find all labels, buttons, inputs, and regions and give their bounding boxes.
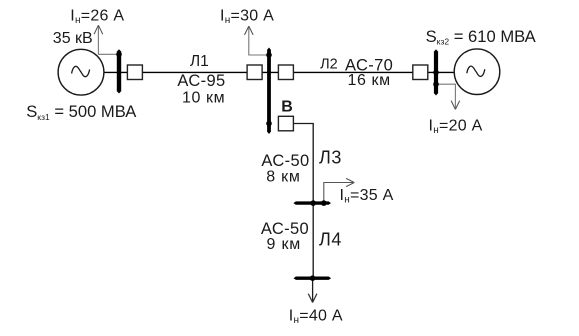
svg-text:35 кВ: 35 кВ [53,30,93,47]
svg-text:Sкз2 = 610 МВА: Sкз2 = 610 МВА [426,27,537,47]
svg-text:9 км: 9 км [267,236,302,253]
svg-text:16 км: 16 км [348,72,391,89]
svg-text:АС-95: АС-95 [177,72,225,90]
svg-text:Iн=26 А: Iн=26 А [70,7,124,26]
svg-text:Sкз1 = 500 МВА: Sкз1 = 500 МВА [26,102,137,122]
svg-text:Iн=40 А: Iн=40 А [289,308,343,327]
svg-text:Iн=35 А: Iн=35 А [340,187,394,206]
svg-text:Л2: Л2 [320,57,338,73]
svg-text:Iн=20 А: Iн=20 А [429,117,483,136]
svg-text:Л4: Л4 [319,230,342,250]
svg-text:АС-50: АС-50 [261,152,309,170]
svg-text:8 км: 8 км [266,168,301,185]
svg-text:Л3: Л3 [319,148,342,168]
svg-text:Л1: Л1 [190,53,209,70]
svg-text:Iн=30 А: Iн=30 А [220,7,274,26]
svg-text:В: В [281,99,293,116]
svg-text:10 км: 10 км [182,90,225,107]
